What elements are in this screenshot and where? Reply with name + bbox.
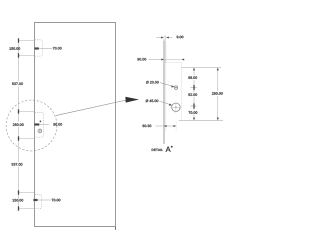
extension lines, left dimension column xyxy=(19,41,35,209)
top hinge pocket (hidden line) xyxy=(35,40,42,56)
dim text dia 20.00 xyxy=(146,81,159,84)
label DETAIL xyxy=(152,149,163,151)
lock pocket outline in detail (dotted) xyxy=(166,62,182,64)
dim text 70.00 bottom xyxy=(52,199,61,201)
follower hole (small) xyxy=(174,86,178,90)
dim 9.00 xyxy=(156,37,161,39)
centre marks xyxy=(171,106,182,108)
lock pocket (hidden line) xyxy=(35,112,43,137)
dim text 60.30 xyxy=(143,125,152,127)
dim text 9.00 xyxy=(177,36,184,38)
detail leader arrowhead xyxy=(125,97,139,103)
centreline below pocket (dotted) xyxy=(175,121,177,131)
hole centre ticks xyxy=(190,87,196,89)
dim 70.00 top hinge xyxy=(35,48,52,50)
tick mark below bottom-right corner xyxy=(115,227,117,230)
faceplate front edge xyxy=(163,41,165,145)
dim text 70.00 top xyxy=(53,47,62,49)
bottom hinge pocket (hidden line) xyxy=(35,194,42,208)
dim text 90.00 pocket xyxy=(53,123,62,125)
dim text 260.00 xyxy=(13,123,24,125)
detail dim column 260.00 xyxy=(217,68,219,121)
dim text 70.00 detail xyxy=(189,111,198,113)
detail boundary circle A (dashed) xyxy=(6,100,57,151)
dim 70.00 bottom hinge xyxy=(34,199,51,201)
pocket top reference line xyxy=(182,67,222,69)
spindle hole dot xyxy=(40,121,42,123)
dim text dia 45.00 xyxy=(146,100,159,103)
white gaps for stacked dim texts xyxy=(11,81,26,167)
detail leader line xyxy=(56,100,127,116)
door leaf outline xyxy=(35,23,116,227)
dim text 90.00 backset xyxy=(137,58,146,60)
arrowhead blobs on left dim column xyxy=(18,38,19,210)
left dimension line column xyxy=(18,41,20,209)
dim text 92.00 xyxy=(188,93,197,95)
dim text 260.00 detail xyxy=(212,92,223,94)
marker square after A xyxy=(171,146,173,148)
dim text 537.00 lower xyxy=(12,163,23,165)
pocket bottom reference line xyxy=(179,120,223,122)
dim text 150.00 top xyxy=(9,47,20,49)
dim text 537.00 upper xyxy=(12,83,23,85)
faceplate back edge xyxy=(165,44,167,63)
cylinder hole (large) xyxy=(172,103,181,112)
label A xyxy=(166,147,171,152)
dim text 150.00 bottom xyxy=(13,199,24,201)
9.00 extension lines xyxy=(163,35,165,40)
dim 90.00 lock pocket xyxy=(35,124,49,126)
cylinder hole xyxy=(38,129,42,133)
dim text 98.00 xyxy=(188,76,197,78)
detail dim column 98/92/70 xyxy=(193,68,195,121)
